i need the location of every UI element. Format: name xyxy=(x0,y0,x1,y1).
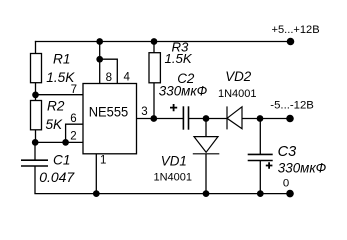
svg-text:3: 3 xyxy=(141,106,147,118)
wire R1 bottom to node R1R2 xyxy=(35,83,37,95)
svg-text:1.5K: 1.5K xyxy=(46,70,75,85)
svg-text:C3: C3 xyxy=(278,144,297,160)
wire node C1 to pin 2 xyxy=(36,141,84,143)
diode VD2 xyxy=(227,106,242,129)
wire pin 4 jog to pin 8 node xyxy=(100,59,118,83)
wire pin 7 from node R1R2 to IC xyxy=(36,94,84,96)
resistor R3 xyxy=(149,53,160,83)
svg-text:0: 0 xyxy=(283,177,289,189)
resistor R2 xyxy=(31,101,42,130)
svg-text:7: 7 xyxy=(71,84,77,96)
junction ground rail / VD1 xyxy=(203,190,210,197)
wire left column top to R1 xyxy=(35,41,37,54)
svg-text:1.5K: 1.5K xyxy=(165,51,193,66)
junction pin 8 / pin 4 xyxy=(96,56,103,63)
svg-text:5K: 5K xyxy=(46,117,64,132)
junction node A C2 / VD1 / VD2 xyxy=(203,115,210,122)
svg-text:VD2: VD2 xyxy=(225,69,252,84)
wire node A down to VD1 xyxy=(205,119,207,137)
resistor R1 xyxy=(31,54,42,83)
capacitor C1 xyxy=(21,160,48,166)
terminal +V xyxy=(287,38,295,46)
wire node R1R2 to R2 top xyxy=(35,95,37,101)
junction ground rail / C3 xyxy=(257,190,264,197)
junction pin 6 / pin 2 xyxy=(62,139,69,146)
wire node C1 down to C1 xyxy=(34,142,36,160)
wire VD1 to ground rail xyxy=(205,154,207,194)
junction ground rail / pin 1 xyxy=(93,190,100,197)
svg-text:-5...-12В: -5...-12В xyxy=(270,100,314,112)
svg-text:+5...+12В: +5...+12В xyxy=(272,24,320,36)
polarity plus of C3 xyxy=(266,162,273,169)
wire R2 bottom to node C1 xyxy=(35,130,37,143)
svg-text:1N4001: 1N4001 xyxy=(154,172,193,184)
wire output node down to C3 xyxy=(259,119,261,155)
svg-text:1N4001: 1N4001 xyxy=(218,88,257,100)
wire R3 bottom to pin 3 node xyxy=(153,83,155,119)
svg-text:8: 8 xyxy=(106,72,112,84)
op-amp timer U1 NE555 body xyxy=(83,84,137,154)
svg-text:4: 4 xyxy=(124,72,131,84)
junction R2 / C1 / pin 2 xyxy=(32,139,39,146)
svg-text:R1: R1 xyxy=(53,52,70,67)
junction top rail / pin 8 xyxy=(96,38,103,45)
svg-text:0.047: 0.047 xyxy=(39,169,75,185)
wire bottom rail 0V xyxy=(34,193,290,195)
junction output node VD2 / C3 xyxy=(257,115,264,122)
svg-text:6: 6 xyxy=(70,113,76,125)
svg-text:330мкФ: 330мкФ xyxy=(278,160,327,175)
wire VD2 to output node xyxy=(242,118,290,120)
wire C3 bottom to ground rail xyxy=(259,161,261,194)
svg-text:330мкФ: 330мкФ xyxy=(159,84,208,99)
wire pin 6 stub xyxy=(66,124,83,142)
diode VD1 xyxy=(193,137,220,154)
wire pin 8 from top rail xyxy=(99,42,101,84)
capacitor C2 xyxy=(183,106,188,129)
terminal 0V xyxy=(286,190,294,198)
svg-text:C1: C1 xyxy=(53,153,70,168)
wire R3 from top rail xyxy=(153,42,155,53)
wire C1 bottom to ground rail xyxy=(34,166,36,194)
svg-text:2: 2 xyxy=(70,130,76,142)
wire C2 to node A xyxy=(189,118,228,120)
junction top rail / R3 xyxy=(151,38,158,45)
junction pin 3 / R3 / C2 xyxy=(150,115,157,122)
terminal -V xyxy=(286,115,294,123)
svg-text:VD1: VD1 xyxy=(161,154,187,169)
wire pin 1 to ground rail xyxy=(95,154,97,194)
wire pin 3 from IC to C2 xyxy=(137,118,184,120)
capacitor C3 xyxy=(248,154,273,160)
wire top rail +V xyxy=(35,41,291,43)
svg-text:1: 1 xyxy=(100,155,106,167)
junction R1 / R2 / pin 7 xyxy=(32,92,39,99)
svg-text:NE555: NE555 xyxy=(89,104,129,120)
svg-text:R2: R2 xyxy=(47,99,65,114)
polarity plus of C2 xyxy=(170,104,177,111)
